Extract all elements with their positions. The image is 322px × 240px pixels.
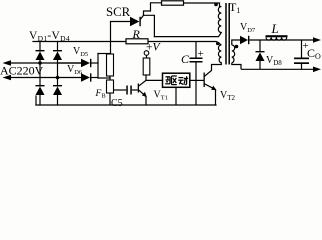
arrow AC line 2 (3, 75, 12, 81)
label 动 (drawn strokes) (178, 76, 188, 85)
node: primary winding dot (216, 42, 220, 46)
resistor FB (107, 80, 114, 93)
wire: gate line to W1 (144, 15, 155, 36)
diode VD4 (53, 85, 62, 95)
wire: top to transformer (184, 3, 222, 7)
wire: VD7 to L (249, 39, 266, 41)
wire: drive input from VT1 collector (146, 79, 163, 81)
svg-text:R: R (132, 27, 141, 41)
wire: rail right of R (148, 41, 217, 43)
node AC1-junction (38, 61, 42, 65)
capacitor C (filter) (190, 42, 203, 106)
wire: SCR cathode staircase to top (144, 3, 222, 37)
wire: base coupling (114, 89, 127, 91)
diode VD6 (81, 73, 91, 81)
node AC2-junction (56, 76, 60, 80)
svg-text:L: L (271, 21, 279, 36)
svg-text:C: C (181, 52, 190, 66)
arrow output - (313, 67, 321, 73)
diode VD3 (36, 85, 45, 95)
wire: VD5/VD6 junction vertical (91, 54, 110, 79)
transformer core (226, 3, 229, 65)
wire: AC input line 1 (8, 62, 81, 64)
diode VD7 (240, 36, 249, 44)
wire: between startup resistors (109, 76, 111, 80)
wire: W1 collector/clamp line (154, 33, 221, 37)
transistor VT1 (138, 75, 146, 105)
inductor L (266, 35, 288, 40)
wire: output bottom rail (241, 68, 314, 70)
diode VD2 (53, 50, 62, 60)
diode VD5 (81, 59, 91, 67)
capacitor C5 (126, 86, 132, 95)
wire: secondary top to VD7 (232, 40, 240, 45)
svg-text:C5: C5 (111, 98, 123, 109)
wire: VD6 feed (58, 77, 82, 79)
wire: AC input line 2 (8, 77, 58, 79)
wire: FB resistor to bottom rail (109, 93, 111, 105)
wire: drive block to bottom rail (175, 87, 177, 105)
wire: SCR anode drop to rail (110, 22, 112, 54)
label 驱 (drawn strokes) (165, 76, 177, 85)
node: secondary winding dot (235, 45, 239, 49)
resistor (collector load, under +V) (143, 58, 150, 75)
svg-text:AC220V: AC220V (0, 64, 44, 78)
transistor VT2 (204, 63, 222, 105)
drive block (163, 73, 190, 87)
transformer T1 secondary winding (232, 45, 235, 63)
svg-text:SCR: SCR (106, 5, 131, 19)
arrow AC line 1 (3, 60, 12, 66)
resistor R (126, 39, 148, 44)
diode VD8 (freewheel) (256, 40, 265, 69)
wire: bottom rail (36, 96, 216, 105)
wire: L to output + (287, 39, 314, 41)
wire: + rail top (33, 41, 126, 43)
node: clamp winding dot (214, 3, 218, 7)
wire: VD5 feed (58, 62, 82, 64)
wire: drive output to VT2 base (190, 79, 204, 81)
thyristor SCR (111, 15, 144, 26)
diode VD1 (36, 50, 45, 60)
wire: secondary bottom to output rail (232, 63, 241, 70)
terminal +V (144, 51, 149, 56)
svg-text:+: + (198, 48, 204, 60)
resistor startup A (107, 54, 114, 76)
wire: left bridge column (39, 42, 41, 52)
transformer T1 primary winding (218, 45, 221, 63)
capacitor Co (294, 40, 309, 69)
wire: rail end to primary top (217, 42, 222, 46)
transformer T1 clamp winding (218, 7, 221, 33)
wire: right bridge column (57, 42, 59, 52)
arrow output + (313, 37, 321, 43)
resistor top (snubber) (162, 1, 184, 5)
